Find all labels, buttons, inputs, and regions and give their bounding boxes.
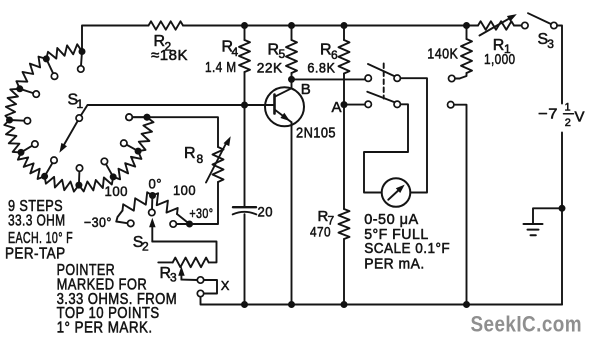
svg-text:1.4 M: 1.4 M [205,59,237,76]
ring tap 6 [45,163,53,176]
switch S1 wiper [76,115,82,121]
contact -30 deg [116,222,127,224]
svg-text:470: 470 [310,224,331,240]
wire: node A to switch gang bottom pole [344,104,365,106]
junction: top rail / R5 [288,22,295,29]
wire: S1 wiper to base node [81,105,275,115]
svg-text:2: 2 [565,117,572,129]
svg-text:20: 20 [258,204,274,220]
wire: node B to switch gang top pole [292,78,366,80]
svg-text:−7: −7 [538,106,558,123]
svg-text:R: R [184,145,196,162]
svg-text:SeekIC.com: SeekIC.com [471,312,583,337]
ring tap 1 [81,52,82,66]
svg-text:SCALE 0.1°F: SCALE 0.1°F [364,240,450,257]
svg-text:22K: 22K [257,59,283,75]
junction: top rail / 140K [463,22,470,29]
node B: junction R5/collector [288,76,295,83]
svg-text:B: B [301,81,312,98]
wire: rail terminal to bottom rail [454,105,467,305]
resistor R6 6.8K [343,26,345,41]
wire: emitter to bottom rail [291,122,293,304]
junction: bottom rail / meter branch [463,301,470,308]
jumper X contacts [181,279,197,281]
junction: bottom rail / R7 [341,301,348,308]
ganged switch: top pole [365,75,371,81]
junction: top rail / R6 [341,22,348,29]
node A [341,101,348,108]
resistor R4 1.4M [244,26,246,41]
contact +30 deg [170,221,176,227]
svg-text:−30°: −30° [84,214,112,230]
svg-text:X: X [221,278,230,293]
contact: 140K lower terminal [460,73,467,79]
tapped ring resistor: 9 steps 33.3 ohm each [4,44,153,191]
resistor R2 ~18K [149,21,184,29]
switch S3 [522,22,528,28]
switch S2 wiper [151,224,153,242]
meter M 0-50 uA [382,178,411,207]
junction: +30 / R8 return [186,221,193,228]
wire: bottom rail [201,297,563,305]
svg-text:3: 3 [547,37,554,51]
wire: R4 to capacitor [244,72,246,206]
wire: S3 to battery [557,26,562,104]
junction: ring end tap [144,114,151,121]
svg-text:PER-TAP: PER-TAP [5,245,66,262]
wire: capacitor to bottom rail [244,214,246,304]
svg-text:+30°: +30° [189,205,213,221]
ring tap 4 [10,119,25,122]
svg-text:4: 4 [232,45,239,59]
wire: top rail R2 to R1 [183,25,478,27]
junction: bottom rail / emitter line [288,301,295,308]
capacitor 20 [233,206,256,208]
transistor Q1 2N105 [265,87,304,126]
svg-text:100: 100 [173,182,196,198]
bridge resistor 100 (left) [123,192,153,210]
junction: top rail / R4 [241,22,248,29]
svg-text:8: 8 [197,152,204,166]
svg-text:1: 1 [77,97,84,111]
rheostat R8 [213,147,224,182]
ring tap 8 [106,164,113,177]
svg-text:≈18K: ≈18K [151,47,188,64]
svg-text:1: 1 [565,102,572,114]
wire: ring end to R8 [126,114,132,120]
ganged switch: bottom pole [365,101,371,107]
ring tap 10 [132,116,147,118]
ring tap 7 [78,171,81,185]
svg-text:2N105: 2N105 [296,124,336,141]
ring tap 2 [46,59,53,73]
potentiometer R3 [173,258,209,268]
svg-text:100: 100 [105,183,129,199]
wire: R8 to +30 node [193,182,218,224]
potentiometer R1 1,000 [478,21,514,29]
resistor R5 22K [291,26,293,41]
svg-text:PER mA.: PER mA. [364,256,425,273]
svg-text:A: A [332,99,343,116]
ring tap 5 [21,146,32,153]
gang link (dashed) [383,64,385,99]
resistor R7 470 [339,209,350,239]
contact: rail-side terminal below 140K [448,102,454,108]
wire: top rail from ring tap to R2 [82,26,149,52]
svg-text:140K: 140K [427,46,458,63]
junction: ground tap [559,205,566,212]
wire: R7 to bottom rail [343,239,345,305]
svg-text:33.3 OHM: 33.3 OHM [8,213,66,230]
resistor 140K [466,26,468,40]
svg-text:1° PER MARK.: 1° PER MARK. [57,320,153,337]
junction: bottom rail / cap line [241,301,248,308]
svg-text:2: 2 [142,240,149,254]
svg-text:3: 3 [170,271,177,285]
ring tap 3 [20,89,33,93]
svg-text:V: V [575,109,586,126]
svg-text:6.8K: 6.8K [307,59,335,75]
svg-text:0°: 0° [149,176,163,192]
ring tap 9 [127,145,139,151]
node 0 deg: bridge center tap [149,192,156,199]
ground [533,208,562,223]
wire: battery to bottom rail [561,133,563,305]
bridge resistor 100 (right) [153,193,178,214]
svg-text:1,000: 1,000 [484,51,516,68]
junction: base node (S1/R4/C) [241,102,248,109]
wire: S2 to R3 [152,242,216,263]
